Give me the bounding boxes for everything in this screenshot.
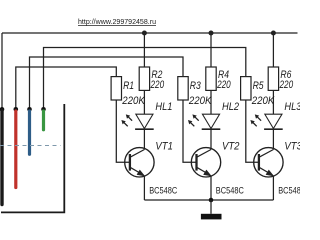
svg-text:VT1: VT1 [155, 141, 173, 153]
svg-text:220K: 220K [121, 95, 145, 107]
label site url http://www.299792458.ru [78, 17, 156, 26]
wire red level-1 sensor line [16, 67, 117, 108]
wire VT2 emitter to ground rail [210, 175, 212, 200]
junction dot on +V rail at x=211 [209, 31, 214, 36]
svg-text:220K: 220K [188, 95, 212, 107]
wire HL3 cathode to VT3 collector [272, 129, 274, 149]
wire HL1 cathode to VT1 collector [143, 129, 145, 149]
wire VT1 emitter to ground rail [143, 175, 145, 200]
wire green level-3 sensor line [44, 48, 246, 108]
transistor VT1 BC548C (NPN) [125, 148, 154, 177]
svg-text:220: 220 [279, 79, 293, 91]
wire +V rail to R6 [272, 33, 274, 67]
wire +V rail to R2 [143, 33, 145, 67]
node level-3 green probe terminal dot [41, 107, 46, 112]
transistor VT2 BC548C (NPN) [191, 148, 220, 177]
svg-text:VT3: VT3 [284, 141, 300, 153]
svg-text:220K: 220K [251, 95, 275, 107]
LED HL2 light emission arrow 1 [192, 114, 198, 120]
resistor R3 220K [178, 77, 188, 100]
node common electrode terminal dot [0, 107, 4, 112]
svg-text:220: 220 [216, 79, 230, 91]
electrode level-3 green probe [42, 111, 45, 130]
wire +V top supply rail [2, 32, 298, 34]
node level-2 blue probe terminal dot [27, 107, 32, 112]
wire R3 to VT2 base [183, 100, 197, 162]
wire R1 to VT1 base [116, 100, 130, 162]
svg-text:http://www.299792458.ru: http://www.299792458.ru [78, 17, 156, 26]
node level-1 red probe terminal dot [14, 107, 19, 112]
svg-text:HL3: HL3 [284, 101, 300, 113]
svg-text:VT2: VT2 [222, 141, 240, 153]
wire VT3 emitter to ground rail [272, 175, 274, 200]
svg-text:BC548C: BC548C [149, 185, 177, 195]
svg-text:R1: R1 [123, 80, 134, 92]
transistor VT3 BC548C (NPN) [254, 148, 283, 177]
tank / vessel outline [1, 104, 64, 212]
svg-text:HL1: HL1 [155, 101, 172, 113]
wire R6 to HL3 anode [272, 90, 274, 114]
wire blue level-2 sensor line [30, 57, 184, 108]
wire common emitter ground rail [144, 199, 273, 201]
junction dot on +V rail at x=144 [142, 31, 147, 36]
resistor R5 220K [241, 77, 251, 100]
LED HL3 [264, 114, 283, 129]
svg-text:220: 220 [150, 79, 164, 91]
electrode level-1 red probe [14, 111, 17, 188]
LED HL3 light emission arrow 1 [255, 114, 261, 120]
wire HL2 cathode to VT2 collector [210, 129, 212, 149]
wire R4 to HL2 anode [210, 90, 212, 114]
wire R5 to VT3 base [246, 100, 259, 162]
svg-text:R5: R5 [253, 80, 265, 92]
electrode level-2 blue probe [28, 111, 31, 154]
LED HL1 light emission arrow 1 [126, 114, 132, 120]
resistor R2 220 [139, 67, 149, 90]
resistor R1 220K [111, 77, 121, 100]
junction dot on +V rail at x=273 [271, 31, 276, 36]
wire +V rail to R4 [210, 33, 212, 67]
svg-text:BC548C: BC548C [216, 185, 244, 195]
LED HL1 light emission arrow 2 [121, 120, 127, 126]
resistor R6 220 [268, 67, 278, 90]
water level dashed line [0, 145, 61, 147]
svg-text:HL2: HL2 [222, 101, 239, 113]
svg-text:R3: R3 [190, 80, 201, 92]
LED HL2 [202, 114, 221, 129]
ground symbol [201, 200, 222, 219]
resistor R4 220 [206, 67, 216, 90]
LED HL1 [135, 114, 154, 129]
wire from +V rail down to common (black) electrode [1, 33, 3, 108]
junction dot on ground rail [209, 198, 214, 203]
LED HL2 light emission arrow 2 [188, 120, 194, 126]
LED HL3 light emission arrow 2 [250, 120, 256, 126]
wire R2 to HL1 anode [143, 90, 145, 114]
common electrode (black probe) [0, 111, 3, 205]
svg-text:BC548C: BC548C [278, 185, 300, 195]
